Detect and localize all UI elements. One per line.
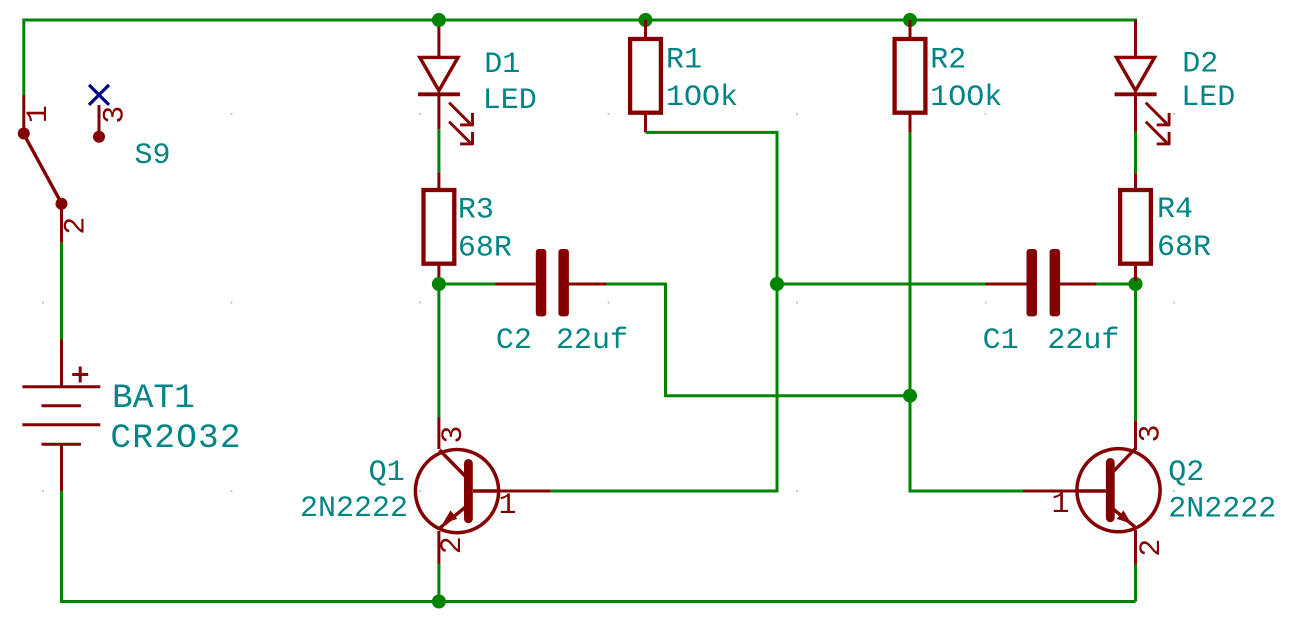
switch S9 pin 2 contact dot <box>56 198 68 210</box>
svg-text:1: 1 <box>1052 488 1070 522</box>
junction R2 top <box>903 13 917 27</box>
resistor R4 bottom pin <box>1134 264 1137 281</box>
D2 LED emission arrow 1 <box>1146 103 1171 126</box>
svg-text:3: 3 <box>98 106 132 124</box>
wire S9 to BAT1 <box>60 243 63 340</box>
transistor Q2 collector pin <box>1134 421 1137 450</box>
wire D2 to R4 <box>1134 132 1137 174</box>
junction R1 top <box>639 13 653 27</box>
wire C2 to node C <box>606 284 910 396</box>
svg-text:1: 1 <box>499 489 517 523</box>
switch S9 pin 2 <box>60 209 63 243</box>
D1 LED emission arrow 2 <box>449 122 474 145</box>
resistor R2 bottom pin <box>909 113 912 133</box>
svg-text:S9: S9 <box>135 139 171 173</box>
capacitor C2 right plate <box>558 249 569 316</box>
wire BAT1 to bottom rail <box>60 491 63 602</box>
svg-text:CR2O32: CR2O32 <box>110 419 241 458</box>
transistor Q1 emitter diagonal <box>440 507 466 528</box>
svg-text:3: 3 <box>437 426 471 444</box>
svg-text:LED: LED <box>1181 81 1235 115</box>
wire C1 to R4 junction <box>1096 283 1136 286</box>
wire R4 junction down to Q2 collector <box>1134 284 1137 421</box>
svg-text:Q2: Q2 <box>1168 456 1204 490</box>
resistor R4 top pin <box>1134 174 1137 190</box>
wire Q2 emitter to bottom rail <box>1134 565 1137 602</box>
battery BAT1 plate short 1 <box>42 404 81 407</box>
no-connect X on S9 pin 3 <box>89 85 109 105</box>
capacitor C2 left plate <box>536 249 547 316</box>
capacitor C2 left pin <box>496 283 536 286</box>
switch S9 pin 1 contact dot <box>18 128 30 140</box>
svg-text:3: 3 <box>1135 424 1169 442</box>
capacitor C1 right pin <box>1060 283 1096 286</box>
svg-text:2: 2 <box>436 536 470 554</box>
diode D2 triangle <box>1116 57 1154 90</box>
resistor R1 body <box>630 39 661 113</box>
capacitor C1 right plate <box>1050 249 1061 316</box>
D1 LED emission arrow 1 <box>449 103 474 126</box>
svg-text:R1: R1 <box>666 44 702 78</box>
battery plus sign <box>72 367 88 383</box>
transistor Q1 collector wire pin <box>437 418 440 450</box>
transistor Q2 base bar <box>1106 458 1115 522</box>
resistor R3 top pin <box>437 172 440 190</box>
diode D1 cathode bar <box>418 92 460 96</box>
resistor R3 bottom pin <box>437 264 440 281</box>
switch S9 pin 1 <box>22 95 25 129</box>
svg-text:LED: LED <box>483 84 537 118</box>
svg-text:BAT1: BAT1 <box>112 379 195 418</box>
resistor R2 top pin <box>909 20 912 39</box>
resistor R1 top pin <box>644 20 647 39</box>
transistor Q1 emitter pin <box>437 531 440 564</box>
transistor Q1 body circle <box>415 450 498 533</box>
capacitor C1 left plate <box>1027 249 1038 316</box>
battery BAT1 top pin <box>60 340 63 387</box>
junction node C <box>903 389 917 403</box>
resistor R4 body <box>1120 190 1151 264</box>
battery BAT1 bottom pin <box>60 444 63 491</box>
capacitor C1 left pin <box>986 283 1027 286</box>
svg-text:68R: 68R <box>1157 231 1211 265</box>
diode D2 cathode bar <box>1115 92 1157 96</box>
wire bottom rail <box>62 600 1136 602</box>
svg-text:R4: R4 <box>1157 193 1193 227</box>
transistor Q1 collector diagonal <box>440 450 466 477</box>
D2 LED emission arrow 2 <box>1146 122 1171 145</box>
transistor Q2 base line <box>1076 489 1106 492</box>
resistor R1 bottom pin <box>644 113 647 133</box>
junction D1 top <box>432 13 446 27</box>
diode D2 bottom pin <box>1134 94 1137 132</box>
wire D1 to R3 <box>437 129 440 172</box>
svg-text:1: 1 <box>22 105 56 123</box>
diode D1 triangle <box>420 57 458 90</box>
wire top rail <box>24 20 1136 95</box>
switch S9 blade <box>26 139 59 200</box>
svg-text:1OOk: 1OOk <box>666 81 738 115</box>
capacitor C2 right pin <box>569 283 606 286</box>
svg-text:R3: R3 <box>458 193 494 227</box>
resistor R3 body <box>424 190 455 264</box>
wire node B to C1 <box>777 283 986 286</box>
transistor Q2 emitter arrow <box>1117 510 1132 523</box>
svg-text:68R: 68R <box>458 232 512 266</box>
svg-text:D1: D1 <box>484 48 520 82</box>
junction node B <box>770 277 784 291</box>
svg-text:22uf: 22uf <box>1047 324 1119 358</box>
svg-text:22uf: 22uf <box>556 324 628 358</box>
switch S9 pin 3 contact dot <box>93 131 105 143</box>
junction R4 bottom <box>1129 277 1143 291</box>
battery BAT1 plate long 2 <box>22 423 100 426</box>
svg-text:2: 2 <box>60 217 94 235</box>
svg-text:2: 2 <box>1135 539 1169 557</box>
battery BAT1 plate short 2 <box>42 443 81 446</box>
svg-text:2N2222: 2N2222 <box>300 492 408 526</box>
junction bottom rail <box>432 595 446 609</box>
svg-text:1OOk: 1OOk <box>930 81 1002 115</box>
svg-text:2N2222: 2N2222 <box>1168 493 1276 527</box>
svg-text:D2: D2 <box>1182 47 1218 81</box>
wire R1 bottom to node B <box>646 132 778 284</box>
junction node A <box>432 277 446 291</box>
transistor Q2 base pin <box>1023 490 1077 493</box>
transistor Q1 base line <box>473 489 500 492</box>
battery BAT1 plate long 1 <box>22 385 100 388</box>
transistor Q2 emitter diagonal <box>1110 506 1135 527</box>
switch S9 pin 3 <box>98 105 101 132</box>
svg-text:Q1: Q1 <box>369 456 405 490</box>
transistor Q1 base bar <box>464 459 473 523</box>
diode D1 bottom pin <box>437 94 440 129</box>
capacitor C2 left wire <box>439 283 496 286</box>
svg-text:C2: C2 <box>496 324 532 358</box>
transistor Q1 base pin <box>498 490 551 493</box>
diode D1 top pin <box>437 20 440 56</box>
transistor Q1 emitter arrow <box>443 510 458 523</box>
svg-text:C1: C1 <box>983 324 1019 358</box>
resistor R2 body <box>895 39 926 113</box>
transistor Q2 body circle <box>1077 449 1160 532</box>
wire Q1 emitter to bottom rail <box>437 564 440 602</box>
transistor Q2 emitter pin <box>1134 530 1137 565</box>
svg-text:R2: R2 <box>930 44 966 78</box>
wire node C to Q2 base <box>910 396 1023 491</box>
wire R2 bottom to node C <box>909 132 912 395</box>
wire node B down to Q1 base <box>551 284 777 491</box>
diode D2 top pin <box>1134 20 1137 56</box>
transistor Q2 collector diagonal <box>1110 449 1135 476</box>
node A vertical wire to Q1 collector <box>437 284 440 418</box>
